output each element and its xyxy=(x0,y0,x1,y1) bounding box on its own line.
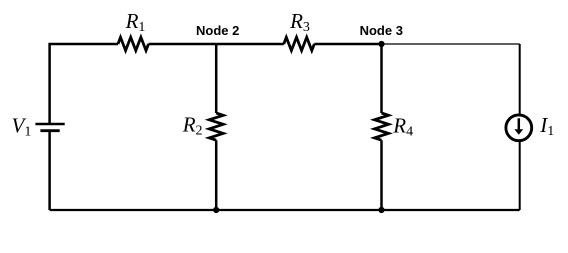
wire node 2 branch lower xyxy=(215,140,218,210)
svg-text:I1: I1 xyxy=(539,113,554,139)
resistor R3 xyxy=(284,37,315,50)
wire node 2 branch upper xyxy=(215,44,218,113)
wire left rail lower (battery bottom to bottom rail) xyxy=(48,131,51,210)
svg-text:Node 2: Node 2 xyxy=(196,23,239,38)
svg-text:R1: R1 xyxy=(125,9,146,35)
wire node 3 to top-right (thin) xyxy=(382,43,520,45)
resistor R1 xyxy=(118,37,149,50)
node 3 junction dot xyxy=(378,41,384,47)
wire R1 to node 2 xyxy=(149,43,217,46)
wire top-left: battery top to R1 xyxy=(50,44,118,124)
svg-text:Node 3: Node 3 xyxy=(360,23,403,38)
wire node 3 branch lower xyxy=(380,140,383,210)
svg-text:V1: V1 xyxy=(12,114,32,140)
wire right rail upper xyxy=(519,44,521,114)
wire bottom rail xyxy=(50,209,520,211)
svg-text:R2: R2 xyxy=(182,113,203,139)
current source arrow xyxy=(518,118,521,130)
resistor R4 xyxy=(375,113,389,140)
wire R3 to node 3 xyxy=(314,43,381,46)
node 2 (T junction) xyxy=(216,43,284,46)
wire node 3 branch upper xyxy=(380,44,383,113)
battery V1 long plate xyxy=(35,123,64,126)
bottom junction dot at R2 branch xyxy=(213,207,219,213)
resistor R2 xyxy=(209,113,223,140)
battery V1 short plate xyxy=(40,129,59,132)
bottom junction dot at R4 branch xyxy=(378,207,384,213)
svg-text:R3: R3 xyxy=(289,9,310,35)
current source I1 xyxy=(506,115,532,141)
svg-text:R4: R4 xyxy=(392,114,413,140)
wire right rail lower xyxy=(519,142,521,210)
